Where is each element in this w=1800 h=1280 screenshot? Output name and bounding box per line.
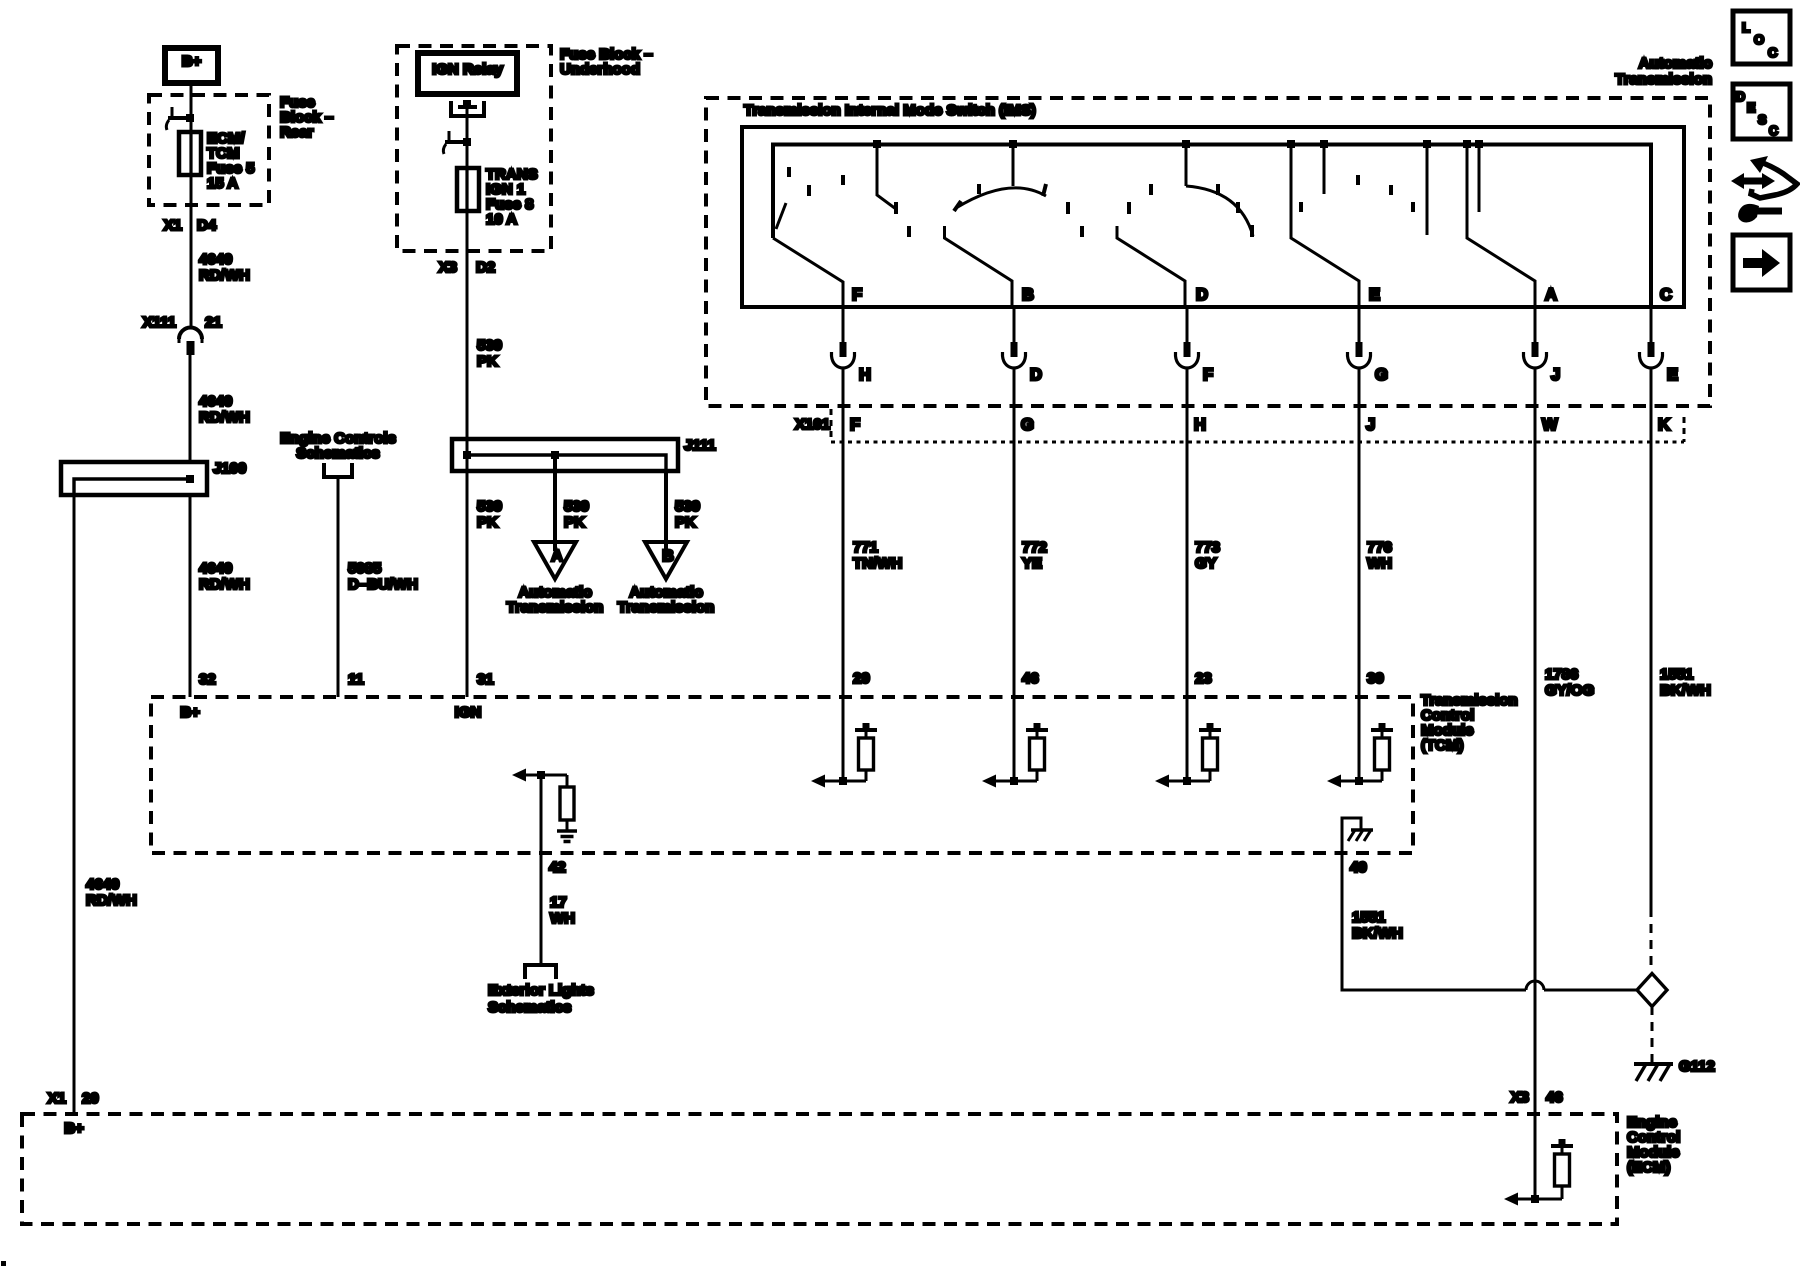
svg-text:4640: 4640 — [86, 876, 119, 893]
svg-text:Transmission Internal Mode Swi: Transmission Internal Mode Switch (IMS) — [744, 102, 1036, 119]
page dot artifact — [1, 1261, 6, 1266]
svg-text:29: 29 — [853, 670, 870, 687]
X1 / 20 pin labels at ECM — [48, 1090, 99, 1107]
Automatic Transmission label — [1615, 55, 1712, 88]
inline connector terminal E — [1640, 307, 1679, 384]
svg-text:X101: X101 — [795, 416, 830, 433]
svg-text:F: F — [852, 286, 862, 304]
X3 / D2 pin labels — [439, 259, 496, 276]
battery feed B+ box — [165, 48, 218, 83]
svg-text:RD/WH: RD/WH — [199, 267, 250, 284]
svg-text:49: 49 — [1350, 859, 1367, 876]
svg-text:B: B — [662, 548, 674, 565]
wire 772 YE to TCM 46 — [1013, 369, 1016, 697]
svg-text:5985: 5985 — [348, 560, 381, 577]
inline connector terminal F — [1176, 307, 1214, 384]
wire fuse to X111 — [190, 175, 193, 329]
svg-text:11: 11 — [348, 671, 364, 688]
splice pack J100 — [61, 462, 207, 495]
svg-text:F: F — [850, 416, 860, 434]
svg-text:Schematics: Schematics — [488, 999, 571, 1016]
svg-text:20: 20 — [82, 1090, 99, 1107]
stubs A section — [1427, 146, 1479, 235]
svg-text:BK/WH: BK/WH — [1660, 682, 1711, 699]
svg-text:O: O — [1754, 32, 1764, 47]
TCM output stage pin 42 — [512, 769, 577, 842]
TCM input stage pin at x=1359 — [1327, 697, 1393, 788]
svg-text:539: 539 — [675, 498, 700, 515]
svg-text:D: D — [1736, 90, 1745, 104]
wire 1551 BK/WH from X101 K — [1650, 369, 1653, 908]
Automatic Transmission dashed box — [706, 98, 1710, 406]
svg-text:H: H — [859, 366, 871, 384]
svg-text:17: 17 — [550, 894, 567, 911]
Exterior Lights Schematics off-page reference — [488, 965, 594, 1016]
contact ticks B-D section — [1068, 184, 1151, 237]
svg-text:B+: B+ — [64, 1120, 84, 1137]
switch arc B section — [954, 146, 1046, 211]
TCM ground stage pin 49 — [1342, 818, 1373, 853]
svg-text:TN/WH: TN/WH — [853, 555, 902, 572]
TCM input stage pin at x=843 — [811, 697, 877, 788]
svg-text:C: C — [1768, 45, 1778, 60]
svg-text:Transmission: Transmission — [1615, 71, 1712, 88]
fuse TRANS IGN 1 Fuse 8 10A — [457, 166, 538, 228]
svg-text:1551: 1551 — [1660, 666, 1693, 683]
svg-text:(TCM): (TCM) — [1421, 737, 1463, 754]
relay output bracket — [451, 100, 484, 116]
svg-text:21: 21 — [205, 314, 222, 331]
X1 / D4 pin labels — [164, 217, 217, 234]
svg-text:D2: D2 — [476, 259, 495, 276]
svg-text:4640: 4640 — [199, 560, 232, 577]
svg-text:X111: X111 — [143, 314, 176, 331]
switch blade at F section — [877, 146, 896, 214]
svg-text:X1: X1 — [164, 217, 182, 234]
svg-text:G112: G112 — [1679, 1058, 1715, 1075]
DESC button — [1733, 84, 1790, 139]
svg-text:10 A: 10 A — [486, 211, 517, 228]
TCM input stage pin at x=1187 — [1155, 697, 1221, 788]
svg-text:1786: 1786 — [1545, 666, 1578, 683]
wire TCM 49 to splice — [1342, 853, 1526, 990]
svg-text:J111: J111 — [684, 437, 716, 454]
wire to off-page triangle B — [664, 471, 668, 551]
svg-text:15 A: 15 A — [207, 175, 238, 192]
Engine Controls Schematics off-page reference — [280, 430, 396, 477]
ground G112 — [1634, 1058, 1715, 1081]
svg-text:E: E — [1369, 286, 1380, 304]
switch pole A — [1467, 146, 1535, 307]
svg-text:Schematics: Schematics — [296, 445, 379, 462]
TCM internal pin names — [180, 704, 481, 721]
svg-text:BK/WH: BK/WH — [1352, 925, 1403, 942]
svg-text:X3: X3 — [1511, 1089, 1529, 1106]
svg-text:K: K — [1658, 416, 1670, 434]
X101 cavity letters — [850, 416, 1670, 434]
inline connector terminal J — [1524, 307, 1561, 384]
svg-text:1551: 1551 — [1352, 909, 1385, 926]
Fuse Block - Rear dashed box — [149, 95, 269, 205]
bus tap symbol in fuse block rear — [166, 107, 194, 130]
off-page triangle B — [645, 542, 687, 579]
ECM label — [1627, 1114, 1680, 1176]
LOC button — [1733, 11, 1790, 64]
Fuse Block - Rear label — [280, 94, 333, 141]
svg-text:RD/WH: RD/WH — [199, 409, 250, 426]
svg-text:4640: 4640 — [199, 251, 232, 268]
svg-text:J100: J100 — [213, 460, 246, 477]
wire 771 TN/WH to TCM 29 — [842, 369, 845, 697]
svg-text:E: E — [1747, 101, 1755, 115]
svg-text:X1: X1 — [48, 1090, 66, 1107]
svg-text:W: W — [1542, 416, 1558, 434]
svg-text:D4: D4 — [197, 217, 217, 234]
svg-text:E: E — [1667, 366, 1678, 384]
IMS internal bus — [773, 145, 1651, 308]
svg-text:Automatic: Automatic — [1639, 55, 1712, 72]
svg-text:B: B — [1022, 286, 1034, 304]
inline connector terminal D — [1003, 307, 1043, 384]
connector X101 dotted line — [831, 409, 1684, 442]
wire 776 WH to TCM 39 — [1358, 369, 1361, 697]
svg-text:PK: PK — [675, 514, 696, 531]
wire label 539 PK — [477, 337, 502, 370]
wire J100 to TCM pin 32 — [189, 495, 192, 697]
svg-text:773: 773 — [1195, 539, 1220, 556]
svg-text:539: 539 — [564, 498, 589, 515]
Transmission Control Module dashed box — [151, 697, 1413, 853]
svg-text:S: S — [1758, 113, 1766, 127]
triangle A label Automatic Transmission — [507, 584, 604, 616]
svg-text:A: A — [1545, 286, 1557, 304]
svg-text:23: 23 — [1195, 670, 1212, 687]
svg-text:4640: 4640 — [199, 393, 232, 410]
svg-text:Exterior Lights: Exterior Lights — [488, 982, 594, 999]
svg-text:D: D — [1030, 366, 1042, 384]
bus junction dots — [873, 140, 881, 148]
svg-text:Underhood: Underhood — [560, 61, 640, 78]
svg-text:776: 776 — [1367, 539, 1392, 556]
wire relay to fuse — [466, 107, 469, 168]
inline connector terminal G — [1348, 307, 1388, 384]
wire label 4640 RD/WH (center leg) — [199, 560, 250, 593]
wire 1786 GY/OG to ECM X3-46 — [1534, 369, 1537, 1114]
switch pole E — [1291, 146, 1359, 307]
dashed wire diamond to ground — [1651, 1006, 1654, 1062]
switch blade at D section — [1186, 146, 1253, 237]
wire label 17 WH — [550, 894, 575, 927]
splice pack J111 — [452, 439, 678, 471]
wire 773 GY to TCM 23 — [1186, 369, 1189, 697]
ECM input stage pin 46 — [1504, 1114, 1573, 1206]
svg-text:42: 42 — [549, 859, 566, 876]
svg-text:X3: X3 — [439, 259, 457, 276]
svg-text:PK: PK — [564, 514, 585, 531]
svg-text:WH: WH — [1367, 555, 1392, 572]
navigation squiggle icon — [1731, 156, 1797, 222]
X3 / 46 pin labels at ECM — [1511, 1089, 1563, 1106]
svg-text:46: 46 — [1546, 1089, 1563, 1106]
wire label 4640 RD/WH — [199, 251, 250, 284]
svg-text:F: F — [1203, 366, 1213, 384]
TCM label — [1421, 692, 1518, 754]
svg-text:Rear: Rear — [280, 124, 314, 141]
svg-text:IGN: IGN — [455, 704, 482, 721]
svg-text:PK: PK — [477, 514, 498, 531]
svg-text:G: G — [1021, 416, 1034, 434]
contact ticks F section — [789, 167, 909, 237]
svg-text:772: 772 — [1022, 539, 1047, 556]
svg-text:32: 32 — [199, 671, 216, 688]
svg-text:539: 539 — [477, 337, 502, 354]
wire label 4640 RD/WH (left leg) — [86, 876, 137, 909]
svg-text:771: 771 — [853, 539, 878, 556]
svg-text:IGN Relay: IGN Relay — [432, 61, 504, 78]
TCM input stage pin at x=1014 — [982, 697, 1048, 788]
forward arrow button — [1733, 235, 1790, 290]
fuse ECM/TCM Fuse 5 15A — [179, 130, 255, 192]
triangle B label Automatic Transmission — [618, 584, 715, 616]
svg-text:Transmission: Transmission — [507, 599, 604, 616]
wire labels 539 PK x3 — [477, 498, 502, 531]
wire label 1551 BK/WH — [1352, 909, 1403, 942]
svg-text:WH: WH — [550, 910, 575, 927]
splice diamond — [1637, 974, 1667, 1007]
IMS pin letters — [852, 286, 1672, 304]
svg-text:PK: PK — [477, 353, 498, 370]
switch pole D — [1117, 226, 1185, 307]
svg-text:B+: B+ — [182, 53, 202, 70]
svg-text:(ECM): (ECM) — [1627, 1159, 1670, 1176]
off-page triangle A — [534, 542, 576, 579]
wire label 4640 RD/WH — [199, 393, 250, 426]
wire TCM 42 down — [540, 775, 543, 965]
svg-text:RD/WH: RD/WH — [86, 892, 137, 909]
Engine Control Module dashed box — [22, 1114, 1617, 1224]
svg-text:D: D — [1196, 286, 1208, 304]
wire to off-page triangle A — [553, 455, 557, 551]
svg-text:GY/OG: GY/OG — [1545, 682, 1594, 699]
wire 5985 to TCM pin 11 — [337, 479, 340, 697]
wire label 5985 D-BU/WH — [348, 560, 418, 593]
Fuse Block - Underhood dashed box — [397, 46, 551, 251]
svg-text:RD/WH: RD/WH — [199, 576, 250, 593]
svg-text:J: J — [1551, 366, 1560, 384]
svg-text:J: J — [1366, 416, 1375, 434]
switch pole F — [773, 203, 843, 307]
svg-text:B+: B+ — [180, 704, 200, 721]
svg-text:YE: YE — [1022, 555, 1042, 572]
IGN Relay box — [418, 53, 517, 94]
switch pole B — [945, 226, 1013, 307]
svg-text:H: H — [1194, 416, 1206, 434]
wire B+ to fuse block rear — [190, 83, 193, 132]
svg-text:C: C — [1769, 124, 1778, 138]
svg-text:L: L — [1742, 20, 1750, 35]
svg-text:C: C — [1660, 286, 1672, 304]
inline connector terminal H — [832, 307, 871, 384]
svg-text:39: 39 — [1367, 670, 1384, 687]
IMS solid box — [742, 127, 1684, 307]
wire fuse to J111 and TCM pin 31 — [466, 211, 469, 697]
svg-text:539: 539 — [477, 498, 502, 515]
bus tap symbol in fuse block underhood — [443, 131, 471, 154]
svg-text:Transmission: Transmission — [618, 599, 715, 616]
svg-text:D–BU/WH: D–BU/WH — [348, 576, 418, 593]
wire X111 to J100 — [189, 355, 192, 464]
svg-text:G: G — [1375, 366, 1388, 384]
stub and ticks E section — [1301, 146, 1413, 212]
svg-text:A: A — [551, 548, 563, 565]
wire hop over 1786 wire — [1526, 981, 1544, 990]
wire J100 left leg to ECM pin 20 — [73, 495, 76, 1114]
svg-text:GY: GY — [1195, 555, 1217, 572]
svg-text:31: 31 — [477, 671, 494, 688]
connector X111 pin 21 — [179, 328, 202, 356]
svg-text:46: 46 — [1022, 670, 1039, 687]
Fuse Block - Underhood label — [560, 46, 653, 78]
